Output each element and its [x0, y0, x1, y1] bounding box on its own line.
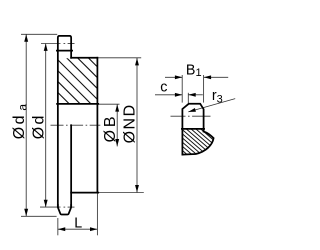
svg-text:L: L [74, 216, 82, 232]
svg-text:ØND: ØND [122, 103, 139, 143]
svg-text:ØB: ØB [102, 114, 119, 143]
svg-text:Ød: Ød [30, 113, 47, 139]
svg-text:c: c [160, 80, 167, 96]
